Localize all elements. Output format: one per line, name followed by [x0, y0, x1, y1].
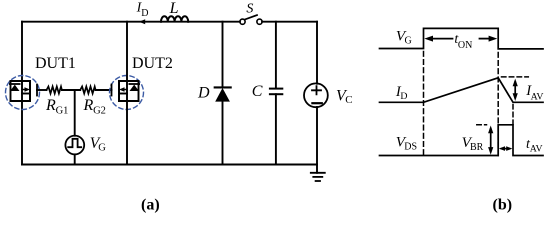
pulse source VG circle	[65, 136, 84, 155]
transistor DUT1 gate lead	[37, 89, 47, 91]
label RG2	[83, 97, 106, 117]
svg-text:L: L	[169, 0, 179, 17]
label tON	[454, 32, 472, 51]
svg-text:AV: AV	[530, 144, 543, 155]
switch S contact left	[240, 19, 245, 24]
capacitor C branch lower wire	[275, 94, 277, 164]
inductor L	[161, 16, 188, 21]
svg-text:(a): (a)	[141, 197, 160, 214]
wire top rail left segment	[22, 21, 240, 23]
label tAV	[526, 137, 543, 155]
resistor RG1	[47, 87, 62, 94]
capacitor C branch upper wire	[275, 22, 277, 89]
svg-text:(b): (b)	[493, 197, 513, 214]
diode D branch lower wire	[222, 102, 224, 165]
svg-text:G1: G1	[56, 106, 69, 117]
transistor DUT1 left diode branch	[10, 81, 12, 101]
wire top rail right segment	[262, 21, 317, 23]
svg-text:AV: AV	[531, 92, 544, 103]
svg-text:S: S	[246, 2, 253, 17]
label L	[169, 0, 179, 17]
wire gate node down to VG source	[74, 90, 76, 136]
transistor DUT2 body arrow	[122, 89, 127, 91]
wire VG source to bottom rail	[74, 154, 76, 164]
transistor DUT2 right diode branch	[138, 81, 140, 101]
label ID (waveform)	[395, 84, 408, 102]
transistor DUT2 channel	[118, 81, 120, 101]
svg-text:DUT1: DUT1	[35, 55, 76, 72]
label S	[246, 2, 253, 17]
transistor DUT1 gate bar	[36, 85, 38, 96]
tON right arrow	[480, 38, 491, 40]
transistor DUT2 source stub	[119, 93, 127, 95]
dashed vertical at turn-off	[497, 53, 499, 156]
tON left arrow	[430, 38, 453, 40]
ground	[311, 172, 325, 174]
transistor DUT2 body-diode cathode bar	[129, 83, 139, 85]
svg-text:D: D	[197, 84, 210, 101]
transistor DUT2 body-diode triangle	[130, 85, 139, 91]
pulse source VG waveform glyph	[68, 139, 81, 147]
label VG (source)	[90, 135, 107, 154]
transistor DUT1 channel	[29, 81, 31, 101]
wire left vertical through DUT1	[21, 22, 23, 165]
label VBR	[462, 134, 484, 153]
dashed vertical at avalanche end	[512, 105, 514, 125]
svg-text:C: C	[252, 83, 263, 100]
transistor DUT1 bottom bar	[11, 100, 31, 102]
transistor DUT2 gate bar	[111, 85, 113, 96]
label IAV	[525, 83, 543, 102]
transistor DUT1 source stub	[22, 93, 30, 95]
svg-text:G: G	[98, 142, 106, 153]
dashed vertical at turn-on	[423, 52, 425, 156]
label D	[197, 84, 210, 101]
label RG1	[45, 97, 68, 117]
switch S lever	[245, 15, 257, 19]
transistor DUT1 top bar	[11, 80, 31, 82]
svg-text:BR: BR	[470, 142, 484, 153]
current arrow I_D on top rail	[139, 19, 145, 24]
svg-text:DUT2: DUT2	[132, 55, 173, 72]
dashed VBR level	[477, 124, 487, 126]
diode D cathode bar	[215, 86, 231, 88]
waveform VDS	[380, 125, 544, 156]
switch S contact right	[257, 19, 262, 24]
current label I_D	[136, 1, 149, 19]
source VC circle	[304, 83, 328, 107]
label C	[252, 83, 263, 100]
VBR double arrow	[490, 129, 492, 152]
tAV horizontal double arrow	[502, 148, 510, 150]
source VC minus sign	[312, 102, 321, 104]
capacitor C bottom plate	[270, 93, 282, 95]
svg-text:DS: DS	[404, 142, 417, 153]
wire DUT2 vertical through symbol	[126, 22, 128, 165]
resistor RG2	[80, 87, 95, 94]
label VC	[336, 87, 353, 105]
IAV double arrow	[514, 82, 516, 98]
transistor DUT2 bottom bar	[119, 100, 139, 102]
wire gate lead to DUT2	[96, 89, 112, 91]
capacitor C top plate	[270, 88, 282, 90]
wire bottom rail	[22, 164, 317, 166]
svg-text:R: R	[45, 97, 56, 114]
DUT2 dashed circle	[110, 76, 144, 110]
diode D triangle	[215, 88, 230, 102]
svg-text:G: G	[405, 36, 412, 47]
svg-text:D: D	[400, 91, 407, 102]
wire VC to ground	[316, 107, 318, 173]
transistor DUT1 body-diode cathode bar	[10, 83, 20, 85]
waveform ID	[380, 78, 544, 103]
diode D branch upper wire	[222, 22, 224, 88]
source VC branch upper wire	[316, 22, 318, 84]
svg-text:D: D	[141, 8, 148, 19]
svg-text:ON: ON	[458, 40, 472, 51]
label (a)	[141, 197, 160, 214]
label VG (waveform)	[396, 28, 412, 47]
transistor DUT1 body-diode triangle	[10, 85, 19, 91]
DUT1 dashed circle	[6, 76, 40, 110]
wire between resistors	[62, 89, 80, 91]
source VC plus sign	[312, 86, 321, 94]
label VDS	[396, 134, 417, 153]
DUT1 label	[35, 55, 76, 72]
svg-text:G2: G2	[93, 106, 106, 117]
svg-text:R: R	[83, 97, 94, 114]
DUT2 label	[132, 55, 173, 72]
label (b)	[493, 197, 513, 214]
transistor DUT1 body arrow	[22, 89, 27, 91]
dashed peak level line	[502, 76, 529, 78]
transistor DUT2 top bar	[119, 80, 139, 82]
svg-text:C: C	[345, 94, 352, 106]
waveform VG	[380, 28, 544, 49]
